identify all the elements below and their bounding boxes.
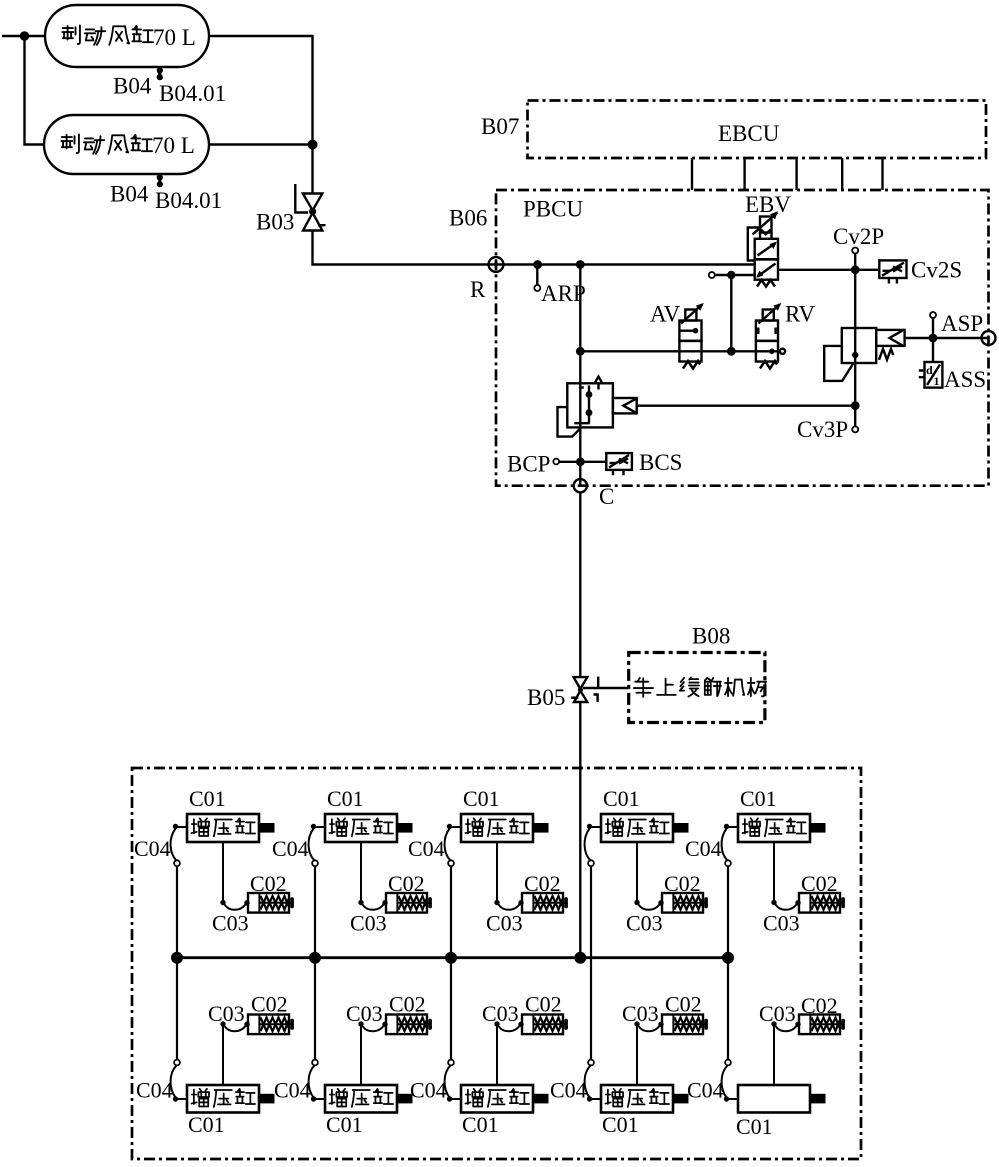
svg-text:C04: C04 [410, 1078, 447, 1103]
svg-text:BCP: BCP [507, 452, 550, 477]
svg-text:B07: B07 [481, 114, 519, 139]
svg-text:C03: C03 [622, 1001, 659, 1026]
svg-text:C04: C04 [136, 1078, 173, 1103]
svg-text:C01: C01 [189, 786, 226, 811]
wire: limiter output to port ASP [905, 337, 989, 339]
svg-text:C01: C01 [326, 1112, 363, 1137]
svg-text:ARP: ARP [541, 281, 586, 306]
node: bus junction dot at 315 [309, 952, 321, 964]
EBCU box B07 [528, 101, 987, 159]
wire: junction down to cock B03 [311, 145, 313, 194]
svg-text:C03: C03 [759, 1001, 796, 1026]
node: supply junction dot on bus [574, 952, 586, 964]
svg-text:C02: C02 [389, 992, 426, 1017]
wire: upper reservoir to down-corner [209, 36, 313, 145]
test port above ASP junction [932, 318, 934, 338]
booster unit C01 bottom column 1 [171, 958, 294, 1137]
svg-text:C03: C03 [626, 911, 663, 936]
cock B05 [571, 677, 587, 702]
wire: branch B05 to B08 with coupling [583, 677, 629, 702]
node: reservoir junction dot [308, 140, 318, 150]
wire: AV line from central vertical [580, 350, 679, 352]
cock B03 [295, 184, 325, 231]
svg-text:C02: C02 [665, 992, 702, 1017]
node: B03 center dot [309, 208, 316, 215]
wire: AV to RV [702, 350, 756, 352]
svg-text:C04: C04 [687, 1078, 724, 1103]
wire: Cv2P junction down to limiter [854, 270, 856, 406]
wire: main R line to EBV [496, 263, 755, 265]
port R: boundary circle [489, 257, 504, 272]
svg-text:R: R [470, 277, 486, 302]
pressure switch BCS [606, 453, 632, 475]
svg-text:C04: C04 [685, 836, 722, 861]
svg-text:C03: C03 [212, 911, 249, 936]
svg-text:B05: B05 [527, 685, 565, 710]
wire: B03 to PBCU port R [313, 231, 497, 265]
svg-text:d: d [926, 363, 933, 377]
svg-text:B04.01: B04.01 [155, 188, 222, 213]
pressure switch ASS [919, 362, 943, 388]
svg-text:Cv2P: Cv2P [833, 224, 884, 249]
svg-text:ASP: ASP [941, 311, 983, 336]
svg-text:C01: C01 [602, 1112, 639, 1137]
port ASP boundary circle [982, 331, 996, 345]
svg-text:C04: C04 [274, 1078, 311, 1103]
svg-text:C01: C01 [736, 1114, 773, 1139]
wire: ASP junction down to pressure switch ASS [932, 338, 934, 362]
node: junction dot between AV and RV [727, 347, 736, 356]
svg-text:70 L: 70 L [152, 133, 195, 158]
wire: B05 down to distribution bus [579, 702, 581, 958]
svg-text:C02: C02 [801, 993, 838, 1018]
svg-text:B04.01: B04.01 [159, 81, 226, 106]
text 车上缓解机构 [634, 677, 766, 697]
svg-text:Cv3P: Cv3P [797, 417, 848, 442]
PBCU box B06 [496, 190, 989, 486]
node: ASP junction dot [929, 334, 938, 343]
svg-text:PBCU: PBCU [523, 197, 583, 222]
booster unit C01 bottom column 5 (blank) [722, 958, 845, 1139]
wire: central vertical through PBCU [579, 265, 581, 486]
test port Cv3P [854, 406, 856, 427]
svg-text:C01: C01 [188, 1112, 225, 1137]
node: BCP junction dot [576, 457, 585, 466]
svg-text:C02: C02 [801, 871, 838, 896]
svg-text:Cv2S: Cv2S [911, 258, 962, 283]
node: pilot junction dot [727, 271, 735, 279]
svg-text:ASS: ASS [944, 367, 986, 392]
node: bus junction dot at 451 [445, 952, 457, 964]
test port ARP stub [536, 265, 538, 286]
svg-text:BCS: BCS [639, 450, 682, 475]
svg-text:B08: B08 [692, 624, 730, 649]
booster unit C01 top column 5 [722, 786, 845, 958]
test port Cv2P [854, 254, 856, 270]
svg-text:70 L: 70 L [153, 25, 196, 50]
node: ARP junction dot [533, 260, 542, 269]
svg-text:C04: C04 [134, 836, 171, 861]
port C boundary circle [574, 479, 587, 492]
pilot port: circle and wire into EBV [709, 272, 715, 278]
pressure limiting valve [824, 328, 904, 381]
wire: pilot junction down to AV-RV line [730, 275, 732, 351]
pressure switch Cv2S [879, 260, 906, 283]
reservoir B04 (lower) 制动风缸70L [44, 115, 209, 174]
wires: EBCU to PBCU connector lines [692, 158, 883, 190]
svg-text:C01: C01 [603, 786, 640, 811]
svg-text:C03: C03 [350, 911, 387, 936]
svg-text:C02: C02 [388, 871, 425, 896]
reservoir B04 (upper) 制动风缸70L [45, 5, 209, 67]
wire: left vertical between reservoirs [25, 36, 45, 145]
svg-text:RV: RV [785, 302, 815, 327]
svg-text:C03: C03 [486, 911, 523, 936]
svg-text:C03: C03 [763, 911, 800, 936]
node: bus junction dot at 728 [722, 952, 734, 964]
valve EBV [748, 211, 778, 286]
svg-text:C02: C02 [664, 871, 701, 896]
wire: relay output to Cv3P junction [637, 405, 856, 407]
svg-text:C02: C02 [524, 871, 561, 896]
svg-text:C02: C02 [250, 871, 287, 896]
svg-text:C03: C03 [208, 1001, 245, 1026]
svg-text:B04: B04 [113, 74, 152, 99]
svg-text:C01: C01 [740, 786, 777, 811]
wire: distribution bus [177, 956, 728, 959]
svg-text:C02: C02 [525, 992, 562, 1017]
svg-text:B06: B06 [449, 206, 487, 231]
node: junction on central vertical [576, 347, 585, 356]
svg-text:AV: AV [650, 302, 681, 327]
valve AV [679, 303, 703, 369]
node: bus junction dot at 177 [171, 952, 183, 964]
svg-text:C01: C01 [462, 1112, 499, 1137]
svg-text:EBCU: EBCU [718, 121, 780, 146]
svg-text:B04: B04 [110, 182, 149, 207]
node: Cv3P junction dot [851, 401, 860, 410]
B08 box [629, 653, 765, 723]
svg-text:C04: C04 [550, 1078, 587, 1103]
svg-text:1: 1 [934, 374, 940, 388]
wire: EBV output to Cv2S [778, 269, 879, 271]
wire: left feed to reservoir B04 (upper) [2, 35, 45, 37]
booster unit C01 bottom column 3 [445, 958, 568, 1137]
node: junction dot on left feed [20, 31, 30, 41]
relay valve body [558, 377, 637, 437]
drain cock B04.01 (lower) [157, 174, 163, 187]
svg-text:C04: C04 [408, 836, 445, 861]
bottom units box [132, 768, 861, 1159]
node: main vertical junction dot [576, 260, 585, 269]
svg-text:C01: C01 [327, 786, 364, 811]
wire: lower reservoir to junction [209, 143, 313, 145]
valve RV [756, 303, 785, 369]
booster unit C01 top column 3 [445, 786, 568, 958]
svg-text:C03: C03 [482, 1001, 519, 1026]
booster unit C01 top column 1 [171, 786, 294, 958]
svg-text:EBV: EBV [745, 192, 791, 217]
svg-text:C: C [599, 484, 614, 509]
drain cock B04.01 (upper) [157, 67, 163, 80]
wire: port C down to cock B05 [579, 492, 581, 676]
svg-text:C03: C03 [346, 1001, 383, 1026]
svg-text:C02: C02 [251, 992, 288, 1017]
booster unit C01 top column 4 [585, 786, 708, 958]
booster unit C01 bottom column 4 [585, 958, 708, 1137]
booster unit C01 top column 2 [309, 786, 432, 958]
svg-text:B03: B03 [256, 210, 294, 235]
svg-text:C01: C01 [463, 786, 500, 811]
node: Cv2P junction dot [851, 265, 860, 274]
svg-text:C04: C04 [272, 836, 309, 861]
booster unit C01 bottom column 2 [309, 958, 432, 1137]
